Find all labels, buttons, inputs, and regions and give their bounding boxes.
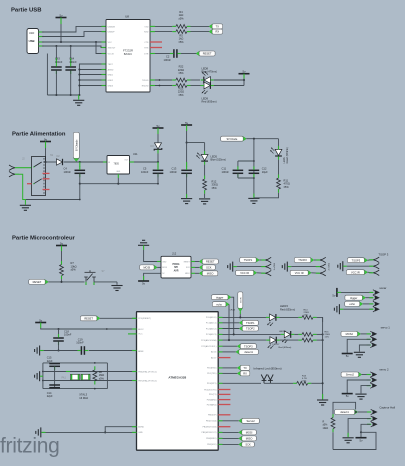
svg-text:±5%: ±5%	[212, 186, 218, 190]
wire gnd to sonar pin4	[340, 308, 344, 310]
wire gnd to TSOP1 connector pin2	[233, 266, 237, 268]
net label RESET	[45, 279, 49, 284]
svg-text:2 eOS1: 2 eOS1	[329, 262, 331, 270]
wire D3 to output node	[157, 150, 159, 154]
connector servo1 pin1	[370, 331, 373, 336]
wire LED17 to R18	[280, 339, 299, 341]
LED8 blue	[204, 77, 210, 84]
wire leds to R13	[264, 382, 293, 384]
svg-text:GND3: GND3	[108, 85, 114, 87]
ground symbol alimentation	[20, 205, 31, 210]
wire VCC IR to TSOP3 pin3	[368, 271, 373, 274]
resistor R6 1M	[93, 370, 97, 381]
wire hall pin3 to 5v node	[361, 424, 370, 432]
VCC pin stub	[128, 333, 137, 335]
svg-text:PB7(XTAL2/TOSC2): PB7(XTAL2/TOSC2)	[138, 379, 157, 382]
USB pin stubs	[39, 31, 45, 33]
net flag trigger (sonar)	[362, 295, 366, 300]
wire U8 RXD to R5	[150, 31, 155, 33]
wire R11 to ground rail	[254, 193, 279, 198]
connector TSOP2 pin1	[320, 257, 326, 262]
resistor R12 330	[203, 179, 207, 190]
wire PB1 to Servo2 flag	[218, 420, 222, 422]
node LED 5v junction	[243, 79, 245, 81]
svg-text:100nF: 100nF	[64, 333, 72, 337]
wire R4 to TX flag	[191, 25, 210, 27]
svg-text:PC5(ADC5/SCL): PC5(ADC5/SCL)	[201, 345, 216, 348]
wire C11/C12 branch vertical	[253, 139, 255, 198]
switch unconnected pins (red)	[43, 172, 50, 174]
svg-text:TSOP2: TSOP2	[298, 258, 307, 262]
svg-text:Blue (470nm): Blue (470nm)	[202, 70, 218, 74]
net label RX	[209, 29, 213, 34]
net label VCC IR (TSOP2)	[308, 270, 312, 275]
svg-text:22pF: 22pF	[47, 359, 53, 363]
wire C63 to ground rail	[55, 71, 57, 96]
svg-text:±5%: ±5%	[99, 376, 105, 380]
connector TSOP3 pin2	[373, 264, 379, 269]
net label MISO (J12)	[199, 271, 203, 276]
unconnected PD4 (red)	[218, 389, 230, 391]
svg-text:9V Chaude: 9V Chaude	[76, 139, 78, 151]
wire ground rail	[47, 94, 79, 96]
unconnected ADC7 (red)	[218, 357, 230, 359]
net label MOSI (chip)	[239, 430, 243, 435]
wire ADC6 to detect1 flag	[218, 351, 222, 353]
wire AGND to GND join	[105, 427, 136, 433]
node LED5 tee junction	[186, 142, 188, 144]
wire switch to D2	[46, 161, 57, 163]
svg-text:VCC IR: VCC IR	[240, 271, 249, 275]
wire R15 to sink vertical	[317, 333, 323, 335]
svg-text:Green (570nm): Green (570nm)	[286, 147, 289, 163]
svg-text:PC6(/RESET): PC6(/RESET)	[138, 318, 151, 320]
ground (USB section)	[78, 95, 80, 100]
power 5v symbol	[336, 288, 338, 297]
wire R23 to LED9	[191, 85, 201, 87]
net label TSOP1	[239, 320, 243, 325]
net label TSOP2	[239, 326, 243, 331]
svg-text:9V Diode: 9V Diode	[227, 137, 238, 141]
power 5v symbol	[356, 437, 367, 439]
wire servo2 pin3 to ground	[361, 386, 370, 394]
power 9v symbol	[40, 141, 51, 143]
wire R14 to sink vertical	[317, 317, 323, 322]
svg-text:MISO: MISO	[246, 436, 253, 440]
svg-text:10µF: 10µF	[262, 170, 268, 174]
wire R22 to LED8	[191, 79, 201, 81]
wire C5 drop	[157, 162, 159, 167]
svg-text:TSOP1: TSOP1	[244, 258, 253, 262]
ground symbol AREF	[35, 346, 40, 356]
wire PB5 to SCK flag	[218, 443, 222, 445]
unconnected CTS pin (red)	[150, 41, 162, 43]
wire hall loop right side	[333, 432, 376, 449]
svg-text:MISO: MISO	[185, 273, 190, 275]
capacitor C19 100nF	[81, 346, 84, 355]
net flag MOS2 (servo1)	[357, 331, 361, 336]
svg-text:BASIC: BASIC	[124, 52, 132, 56]
net label SCK (J12)	[199, 265, 203, 270]
wire sink vertical to ground	[322, 317, 324, 399]
svg-text:PB3(MOSI/OC2): PB3(MOSI/OC2)	[201, 432, 216, 434]
svg-text:AGND: AGND	[138, 426, 144, 429]
node detect1 junction	[355, 411, 357, 413]
connector hall pin3	[371, 422, 374, 427]
connector hall pin1	[371, 409, 374, 414]
LED15 red	[270, 314, 276, 321]
wire MOS2 to servo1 pin1	[361, 333, 371, 335]
node VCCIO branch junction	[95, 41, 97, 43]
svg-text:AREF: AREF	[138, 350, 144, 353]
ground symbol LED sink	[317, 400, 328, 405]
svg-text:Servo2: Servo2	[246, 419, 255, 423]
svg-text:TSOP3: TSOP3	[244, 344, 253, 348]
resistor R5 1k	[176, 30, 187, 34]
svg-text:PD3(INT1): PD3(INT1)	[207, 383, 217, 385]
svg-text:RESET: RESET	[184, 261, 191, 263]
ground symbol C11 C12	[248, 198, 259, 203]
net flag IR 38 (vertical, to PC0)	[238, 308, 243, 312]
wire C4 junction down to rail C	[79, 184, 81, 200]
svg-text:MOSI: MOSI	[144, 265, 151, 269]
connector servo2 pin1	[370, 372, 373, 377]
wire U8 TXLED to R22	[150, 79, 155, 81]
svg-text:J12: J12	[172, 252, 177, 256]
svg-text:VCC IR: VCC IR	[295, 271, 304, 275]
wire R12 to ground	[204, 194, 206, 198]
svg-text:GND: GND	[138, 432, 143, 434]
crystal cluster bottom rail	[43, 388, 108, 390]
svg-text:PB5(SCK): PB5(SCK)	[207, 444, 217, 446]
wire C4 to gnd rail B	[79, 174, 81, 184]
ground symbol crystal	[35, 371, 40, 381]
svg-text:MISO: MISO	[207, 271, 214, 275]
wire C4 drop	[79, 162, 81, 167]
svg-text:ADC6: ADC6	[211, 351, 217, 354]
wire C19 to AREF pin	[89, 350, 137, 352]
svg-text:Blue (525nm): Blue (525nm)	[211, 158, 227, 162]
wire U11 OUT to 5v node	[130, 161, 135, 163]
resistor R18 220	[302, 338, 313, 342]
net label Servo2 (chip)	[239, 418, 243, 423]
wire branch to U8 VCCIO	[96, 42, 106, 54]
wire R16 to bottom loop	[332, 432, 334, 449]
wire 5v to AVCC	[41, 328, 137, 329]
resistor R23 220	[176, 84, 187, 88]
wire servo1 pin2 to 5v	[347, 339, 370, 353]
wire RESET flag to PC6	[100, 317, 137, 319]
ground symbol TSOP3 (left)	[338, 261, 343, 271]
svg-text:U8: U8	[125, 15, 129, 19]
wire D2 to regulator U11 IN	[64, 161, 107, 163]
wire 5v to R7	[61, 251, 63, 261]
wire LED6 to R11	[278, 160, 280, 175]
wire U8 DTR to C2	[150, 53, 155, 55]
svg-text:echo: echo	[216, 302, 222, 306]
svg-text:PB4(MISO): PB4(MISO)	[206, 438, 217, 440]
wire trigger to sonar pin2	[366, 297, 373, 299]
ground symbol sonar	[334, 304, 339, 314]
wire VCC IR flag to pin3	[311, 272, 319, 274]
node 9V chaude junction	[79, 161, 81, 163]
connector TSOP1 pin2	[265, 264, 271, 269]
svg-text:5V IR: 5V IR	[240, 297, 242, 303]
wire USB pin1 to U8 USBDM	[42, 26, 106, 32]
wire PD0 to TX flag	[218, 367, 222, 369]
node 5v-VCC junction	[60, 41, 62, 43]
svg-text:100nF: 100nF	[170, 170, 178, 174]
node rail B junction	[79, 183, 81, 185]
svg-text:TXLED: TXLED	[142, 80, 149, 82]
connector TSOP3 pin3	[373, 270, 379, 275]
node C63 junction	[55, 45, 57, 47]
wire LED6 branch down	[278, 139, 280, 146]
net label SCK (chip)	[239, 442, 243, 447]
net label 9V Chaude	[73, 158, 79, 162]
wire PB7 to crystal	[43, 380, 137, 382]
svg-text:PD5(T1): PD5(T1)	[209, 394, 217, 396]
wire gnd to J12 pin1	[143, 245, 145, 250]
wire PD1 to RX flag	[218, 372, 222, 374]
svg-text:PB2(SS/OC1B): PB2(SS/OC1B)	[203, 427, 217, 429]
wire LED9 to 5v rail	[214, 85, 244, 87]
unconnected PD5 (red)	[218, 393, 230, 395]
svg-text:trigger: trigger	[216, 295, 223, 299]
switch arm 2	[34, 179, 42, 184]
svg-text:GND: GND	[162, 261, 167, 263]
svg-text:7805: 7805	[114, 163, 120, 166]
svg-text:TX: TX	[216, 24, 220, 28]
wire R7 to reset node	[61, 279, 63, 282]
power 5v symbol	[239, 73, 250, 75]
LED17 red	[270, 337, 276, 344]
net label VCC IR (TSOP3)	[364, 270, 368, 275]
wire 5v to VCC rail	[60, 24, 62, 42]
crystal cluster top rail	[43, 362, 108, 364]
ground symbol ATMEGA	[36, 427, 41, 437]
svg-text:RX: RX	[216, 30, 220, 34]
wire TSOP1 flag to pin1	[259, 259, 264, 261]
LED16 red	[284, 331, 290, 338]
wire gnd to C19 to AREF	[44, 350, 81, 352]
svg-text:Partie USB: Partie USB	[11, 8, 41, 14]
node 9v junction	[44, 161, 46, 163]
svg-text:Red (635nm): Red (635nm)	[280, 308, 295, 312]
svg-text:Red (635nm): Red (635nm)	[202, 100, 217, 104]
wire C63 drop	[55, 46, 57, 63]
wire detect1 to hall pin1	[358, 411, 371, 413]
wire USB pin4 to U8 3V3OUT	[42, 46, 106, 48]
svg-text:RESET: RESET	[203, 52, 212, 56]
connector servo1 pin2	[370, 337, 373, 342]
wire TSOP3 flag to pin1	[368, 259, 373, 261]
svg-text:VCC IR: VCC IR	[351, 270, 360, 274]
wire PC5 to TSOP3 flag	[218, 345, 222, 347]
svg-text:±5%: ±5%	[325, 337, 329, 339]
IC ATMEGA328	[137, 312, 219, 451]
wire TSOP2 flag to pin1	[314, 259, 319, 261]
node C18 junction	[57, 328, 59, 330]
svg-text:1 eOS1: 1 eOS1	[274, 262, 276, 270]
node C64 junction	[70, 45, 72, 47]
wire USB pin3 / 5v to U8 VCC	[42, 41, 106, 43]
wire PC2 to TSOP2 flag	[218, 328, 222, 330]
wire 5v down to LED5 tee	[186, 131, 188, 143]
ground symbol hall	[343, 438, 354, 443]
connector servo1 pin3	[370, 342, 373, 347]
ground symbol C13	[181, 199, 192, 204]
wire LED16 to R15	[294, 333, 298, 335]
svg-text:trigger: trigger	[350, 296, 357, 300]
capacitor C64 100nF	[65, 67, 76, 70]
svg-text:SCK: SCK	[245, 442, 251, 446]
svg-text:SCK: SCK	[206, 265, 212, 269]
svg-text:Red (635nm): Red (635nm)	[279, 347, 292, 349]
net label TSOP3 (conn)	[364, 258, 368, 263]
net flag echo (sonar)	[359, 301, 363, 306]
unconnected PB0 (red)	[218, 414, 230, 416]
svg-text:±5%: ±5%	[178, 71, 184, 75]
svg-text:VCC: VCC	[138, 334, 143, 336]
resistor R15 220	[302, 333, 313, 337]
svg-text:VCC: VCC	[108, 42, 113, 44]
svg-text:U1D: U1D	[29, 31, 34, 35]
net label RX (chip)	[237, 371, 241, 376]
wire LED8 to 5v rail	[214, 79, 244, 81]
switch S9 DPDT	[32, 157, 46, 196]
svg-text:USBDP: USBDP	[108, 32, 116, 34]
wire gnd to TSOP3 pin2	[347, 265, 373, 267]
wire servo2 flag to pin1	[362, 374, 371, 376]
ground symbol TSOP2 (left)	[282, 262, 287, 272]
wire S7 to ground	[94, 281, 117, 283]
power 5v symbol	[342, 393, 353, 395]
net label detect1 (chip)	[236, 349, 240, 354]
svg-text:GND2: GND2	[108, 80, 114, 82]
net label RESET (USB)	[196, 51, 200, 56]
svg-text:PC4(ADC4/SDA): PC4(ADC4/SDA)	[201, 339, 217, 342]
svg-text:TSOP3: TSOP3	[352, 258, 361, 262]
svg-text:3V3OUT: 3V3OUT	[108, 47, 117, 49]
capacitor C4 100nF	[75, 170, 86, 173]
wire C13 drop	[186, 143, 188, 167]
net label MOSI J12	[154, 265, 158, 270]
svg-text:servo 1: servo 1	[381, 325, 391, 329]
svg-text:TXD: TXD	[144, 26, 149, 28]
wire C2 to RESET flag	[181, 53, 196, 55]
svg-text:AVCC: AVCC	[138, 328, 144, 331]
svg-text:100nF: 100nF	[222, 170, 230, 174]
svg-text:VCCIO: VCCIO	[108, 53, 115, 55]
svg-text:±5%: ±5%	[71, 268, 77, 272]
svg-text:ADC7: ADC7	[211, 356, 217, 359]
wire J12 pin3 to 5v	[144, 273, 161, 280]
power 5v symbol	[56, 245, 67, 247]
svg-text:PD7(AIN1): PD7(AIN1)	[207, 403, 217, 406]
svg-text:TSOP2: TSOP2	[246, 327, 255, 331]
capacitor C5 100nF	[153, 170, 164, 173]
wire J2 pin2 to ground rail	[19, 174, 26, 199]
svg-text:TX: TX	[243, 366, 247, 370]
ground symbol servo2	[355, 394, 366, 399]
svg-text:AGND: AGND	[108, 68, 114, 71]
svg-text:PC3(ADC3): PC3(ADC3)	[206, 333, 217, 336]
LED6 green	[275, 149, 282, 155]
wire 5v to sonar pin1	[337, 291, 341, 293]
wire C64 to ground rail	[70, 71, 72, 96]
node C11/C12 junction	[253, 138, 255, 140]
unconnected PD6 (red)	[218, 399, 230, 401]
wire gnd to TSOP2 connector pin2	[288, 266, 292, 268]
capacitor C11 100nF	[233, 170, 244, 173]
net label MISO (chip)	[239, 436, 243, 441]
wire mid vertical (caps to xtal wires)	[54, 367, 56, 388]
connector TSOP3 pin1	[373, 257, 379, 262]
net label TSOP1	[256, 258, 260, 263]
net flag servo2	[358, 372, 362, 377]
ground symbol LED5	[199, 199, 210, 204]
wire C13 to ground	[186, 174, 188, 198]
svg-text:servo 2: servo 2	[379, 367, 389, 371]
net label VCC IR (TSOP1)	[253, 270, 257, 275]
svg-text:USB: USB	[29, 39, 35, 43]
svg-text:RESET: RESET	[84, 316, 93, 320]
regulator U11 7805	[107, 156, 130, 175]
svg-text:PA1: PA1	[62, 376, 67, 379]
wire PD3 to infrared leds	[218, 382, 222, 384]
capacitor C12 10uF	[249, 170, 260, 173]
wire echo to sonar pin3	[363, 303, 373, 305]
wire U8 RXLED to R23	[150, 85, 155, 87]
wire U8 TXD to R4	[150, 25, 155, 27]
node IR sink junction	[322, 382, 324, 384]
wire LED5 to R12	[204, 165, 206, 176]
svg-text:sonar: sonar	[379, 286, 386, 290]
net label 9V Diode	[243, 136, 247, 141]
svg-text:±5%: ±5%	[302, 381, 306, 383]
svg-text:detect1: detect1	[244, 350, 253, 354]
wire J12 RESET out	[191, 261, 195, 263]
svg-text:PB0(ICP): PB0(ICP)	[208, 415, 217, 417]
ground symbol TSOP1 (left)	[228, 262, 233, 272]
svg-text:TEST: TEST	[108, 64, 114, 66]
connector TSOP1 pin1	[265, 257, 271, 262]
wire hall top loop	[333, 402, 356, 417]
wire cap bracket bottom	[238, 177, 254, 179]
ground symbol S7	[111, 286, 122, 291]
svg-text:LED17: LED17	[273, 344, 280, 346]
svg-text:100nF: 100nF	[55, 60, 63, 64]
wire C11 top stub	[237, 161, 239, 167]
connector hall pin2	[371, 416, 374, 421]
svg-text:PB1(OC1A): PB1(OC1A)	[206, 420, 217, 423]
USB connector J1	[27, 29, 39, 54]
svg-text:MOS2: MOS2	[346, 332, 354, 336]
ISP header J12 PROG SPI AVR	[161, 256, 191, 278]
svg-text:PC1(ADC1): PC1(ADC1)	[206, 322, 217, 325]
wire 9V Diode rail	[246, 138, 278, 140]
svg-text:±5%: ±5%	[178, 16, 184, 20]
net label TX	[209, 24, 213, 29]
svg-text:GND1: GND1	[108, 74, 114, 76]
net flag detect1 (hall)	[354, 410, 358, 415]
svg-text:CTS: CTS	[144, 42, 149, 44]
wire hall 5v stub	[360, 432, 362, 437]
svg-text:PC0(ADC0): PC0(ADC0)	[206, 316, 217, 319]
wire PC3 row to LED16	[218, 333, 222, 335]
connector sonar pins	[373, 290, 376, 295]
